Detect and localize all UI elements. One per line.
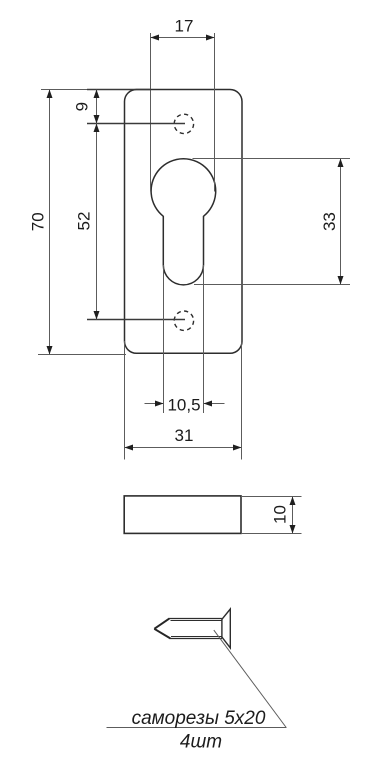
- dimension 10 text: [271, 505, 290, 524]
- dimension 70 extension line top: [41, 89, 125, 91]
- annotation text line 2: [180, 731, 222, 752]
- svg-text:70: 70: [29, 212, 48, 231]
- dimension 10 extension line bottom: [241, 533, 302, 535]
- dimension 17 line: [151, 35, 215, 41]
- screw hole bottom (dashed): [174, 311, 193, 330]
- dimension 9 extension top segment: [87, 89, 151, 91]
- annotation underline: [107, 727, 287, 729]
- hole centre leader bottom: [87, 319, 185, 321]
- dimension 33 extension line top: [193, 158, 351, 160]
- dimension 10,5 line right arrow: [204, 401, 225, 407]
- dimension 70 extension line bottom: [38, 354, 126, 356]
- svg-text:10: 10: [271, 505, 290, 524]
- dimension 9 line: [94, 90, 100, 124]
- dimension 31 extension line right: [241, 341, 243, 460]
- dimension 10,5 text: [167, 396, 200, 415]
- dimension 10 extension line top: [241, 496, 302, 498]
- plate side view: [124, 496, 241, 534]
- dimension 33 text: [320, 212, 339, 231]
- dimension 70 text: [29, 212, 48, 231]
- dimension 9 text: [73, 102, 92, 111]
- dimension 31 line: [125, 445, 242, 451]
- svg-text:9: 9: [73, 102, 92, 111]
- dimension 33 extension line bottom: [194, 284, 350, 286]
- dimension 33 line: [338, 159, 344, 285]
- dimension 10 line: [290, 497, 296, 534]
- dimension 10,5 line left arrow: [145, 401, 164, 407]
- svg-text:10,5: 10,5: [167, 396, 200, 415]
- annotation leader line: [214, 630, 286, 727]
- hole centre leader top: [87, 123, 185, 125]
- dimension 31 extension line left: [124, 341, 126, 460]
- dimension 17 text: [175, 16, 194, 35]
- svg-text:4шт: 4шт: [180, 731, 222, 752]
- keyhole cutout: [151, 159, 216, 285]
- screw body outline: [154, 619, 222, 639]
- plate front view outline: [125, 90, 243, 354]
- svg-text:52: 52: [75, 212, 94, 231]
- svg-text:31: 31: [175, 426, 194, 445]
- dimension 17 extension line right: [214, 33, 216, 192]
- screw head: [222, 609, 230, 648]
- dimension 52 line: [94, 124, 100, 320]
- screw hole top (dashed): [174, 114, 193, 133]
- dimension 10,5 extension line left: [163, 265, 165, 413]
- dimension 70 line: [47, 90, 53, 355]
- dimension 17 extension line left: [150, 33, 152, 192]
- svg-text:17: 17: [175, 16, 194, 35]
- svg-text:саморезы 5х20: саморезы 5х20: [132, 708, 266, 729]
- dimension 10,5 extension line right: [203, 265, 205, 413]
- dimension 52 text: [75, 212, 94, 231]
- dimension 31 text: [175, 426, 194, 445]
- annotation text line 1: [132, 708, 266, 729]
- svg-text:33: 33: [320, 212, 339, 231]
